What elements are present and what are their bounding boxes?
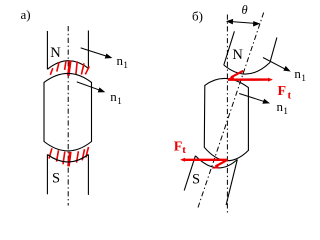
S pole right edge (87, 155, 89, 195)
svg-text:1: 1 (283, 107, 288, 117)
tick b7 (86, 147, 89, 158)
N pole (tilted) face arc (224, 63, 270, 75)
axis tilted dash-dot (fig b) (198, 13, 264, 208)
tick t1 (50, 68, 53, 75)
svg-text:t: t (288, 90, 292, 102)
N pole (tilted) left edge (224, 31, 235, 65)
tick t3 (65, 61, 66, 70)
svg-text:б): б) (192, 8, 203, 23)
svg-text:1: 1 (301, 74, 306, 84)
tick b1 (49, 148, 52, 158)
axis vertical dash-dot (fig b) (226, 15, 228, 215)
tick b6 (82, 149, 84, 160)
n1 arrow lower (fig a) (77, 82, 104, 92)
N pole (tilted) right edge (270, 38, 277, 63)
bottom gap red ticks (49, 147, 89, 166)
svg-text:а): а) (21, 7, 31, 22)
svg-text:N: N (232, 47, 243, 63)
S pole concave face arc (47, 155, 88, 163)
n1 arrow upper (fig a) (81, 48, 111, 58)
theta measure double arrow (227, 20, 259, 26)
n1 arrow lower (fig b) (239, 94, 269, 104)
tick t4 center (68, 60, 70, 75)
svg-text:1: 1 (117, 97, 122, 107)
barrel (cylinder) fig a (44, 73, 92, 150)
tick b5 (77, 151, 79, 162)
svg-text:1: 1 (123, 61, 128, 71)
force arrow F_t bottom: horizontal, small head left (180, 158, 227, 162)
tick t6 (81, 63, 84, 74)
N pole left edge (46, 31, 48, 69)
svg-text:N: N (50, 45, 61, 61)
tick b3 (63, 152, 65, 165)
tick t2 (57, 62, 59, 71)
axis (vertical dash-dot) fig a (67, 26, 69, 206)
tick b2 (57, 150, 59, 161)
svg-text:S: S (192, 172, 200, 188)
tick b4 center (69, 152, 71, 167)
S pole (tilted) face arc (195, 156, 237, 168)
svg-text:F: F (278, 84, 287, 99)
S pole (tilted) right edge (226, 160, 237, 206)
tick t5 (76, 61, 77, 74)
N pole right edge (87, 31, 89, 69)
S pole left edge (46, 155, 48, 195)
red gap tick / force arrow top: diagonal (227, 71, 243, 80)
svg-text:t: t (182, 144, 186, 156)
force arrow F_t top: horizontal, small head right (228, 78, 273, 82)
red gap tick / force arrow bottom: diagonal (212, 160, 228, 169)
svg-text:F: F (174, 140, 183, 155)
top gap red ticks (50, 60, 89, 75)
n1 arrow upper (fig b) (263, 58, 290, 71)
N pole concave face arc (47, 61, 88, 70)
svg-text:S: S (52, 171, 60, 187)
barrel (fig b) (204, 78, 248, 160)
S pole (tilted) left edge (184, 156, 195, 191)
tick t7 (85, 66, 89, 74)
svg-text:θ: θ (242, 3, 248, 17)
